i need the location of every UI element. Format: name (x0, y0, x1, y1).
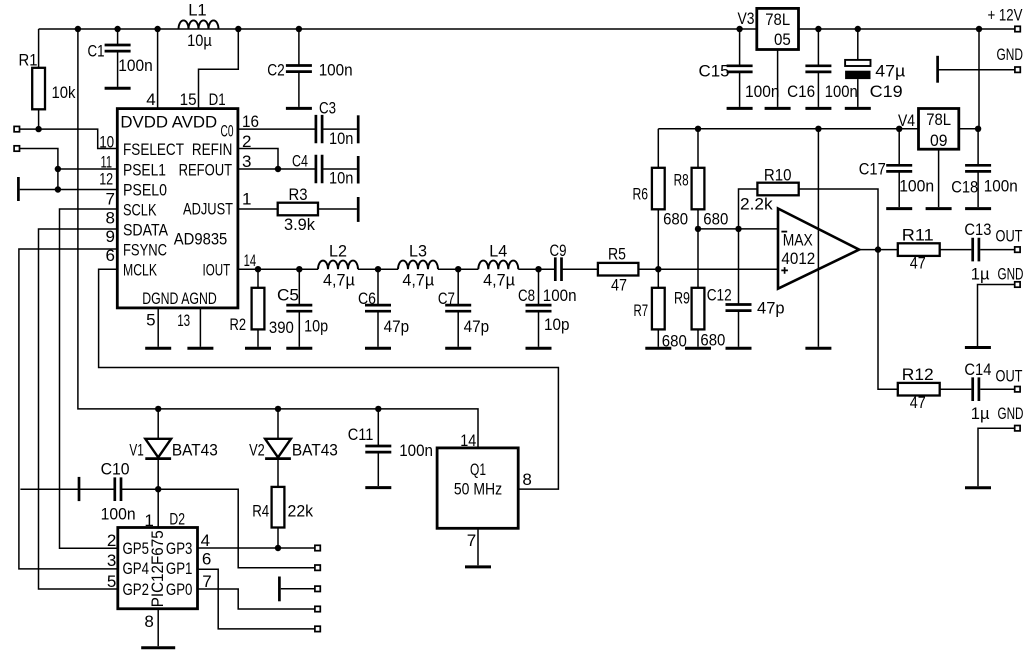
svg-text:10: 10 (99, 133, 114, 152)
wire C15 to rail (739, 29, 741, 66)
wire C18 to ground (977, 171, 979, 207)
op-amp inverting input marker (781, 231, 787, 233)
wire AD9835 pin 4 DVDD to rail (157, 29, 159, 109)
svg-text:L3: L3 (409, 242, 427, 261)
svg-text:C15: C15 (699, 62, 730, 81)
wire V1 cathode to C10 node (157, 460, 159, 489)
svg-text:GP3: GP3 (166, 539, 193, 558)
ground C12 (726, 347, 752, 350)
junction V1 / diode rail (155, 406, 161, 412)
svg-text:78L: 78L (926, 110, 951, 129)
IC D2 PIC12F675 body (118, 528, 198, 609)
svg-text:100n: 100n (319, 60, 353, 79)
wire V2 anode (277, 409, 279, 439)
capacitor C9 (555, 257, 561, 281)
capacitor C2 (286, 66, 312, 72)
junction PSEL0 tie (55, 186, 61, 192)
junction +5V rail / left branch (75, 26, 81, 32)
svg-text:1: 1 (144, 511, 153, 530)
junction C16 / rail (815, 26, 821, 32)
wire C2 to ground (298, 72, 300, 107)
resistor R2 (252, 288, 265, 330)
junction R4 / GP3 (275, 545, 281, 551)
svg-text:R8: R8 (674, 170, 689, 189)
diode V1 (145, 439, 171, 458)
terminal GP0 output (315, 606, 320, 611)
inductor L3 (398, 261, 438, 270)
svg-text:47p: 47p (384, 317, 410, 336)
ground V4 (926, 207, 952, 210)
svg-text:C8: C8 (518, 286, 535, 305)
resistor R7 (652, 288, 665, 330)
ground lower output (965, 486, 991, 489)
wire C2 to rail (298, 29, 300, 66)
svg-text:SCLK: SCLK (123, 200, 157, 219)
svg-text:3: 3 (242, 152, 251, 171)
terminal GND lower (1015, 426, 1020, 431)
junction R5 / R6 / R7 + input node (655, 266, 661, 272)
junction R1 / FSELECT wire (35, 126, 41, 132)
svg-text:C13: C13 (964, 220, 991, 239)
ground C6 (365, 347, 391, 350)
wire 9V rail (658, 128, 918, 130)
svg-text:C12: C12 (707, 286, 732, 305)
wire FSYNC pin 9 to PIC GP4 (19, 249, 118, 569)
resistor R9 (692, 288, 705, 330)
svg-text:C4: C4 (292, 152, 308, 171)
wire R9 from - node to ground (697, 229, 699, 347)
wire V4 ground pin (938, 149, 940, 207)
ground C11 (365, 486, 391, 489)
ground C8 (526, 347, 552, 350)
bar termination C4 (357, 156, 360, 184)
wire MCLK pin 6 to oscillator output pin 8 (99, 269, 559, 489)
wire C12 to ground (738, 311, 740, 347)
terminal GND top (1015, 67, 1020, 72)
svg-text:V3: V3 (738, 9, 755, 28)
wire C17 to 9V rail (898, 129, 900, 166)
junction R8 / R9 - node (695, 226, 701, 232)
wire C5 to ground (298, 311, 300, 347)
junction +12V drop / rail (976, 26, 982, 32)
ground C2 (286, 107, 312, 110)
ground AGND pin 13 (187, 347, 213, 350)
oscillator Q1 50 MHz body (437, 448, 518, 528)
svg-text:R10: R10 (764, 166, 792, 185)
wire C11 to ground (377, 452, 379, 486)
capacitor C6 (365, 305, 391, 311)
svg-text:680: 680 (703, 209, 728, 228)
svg-text:100n: 100n (101, 505, 136, 524)
svg-text:3: 3 (107, 551, 116, 570)
svg-text:5: 5 (107, 572, 116, 591)
junction V1 cathode / C10 / PIC pin1 (155, 486, 161, 492)
wire C10 to node (122, 488, 159, 490)
svg-text:12: 12 (99, 170, 113, 189)
svg-text:OUT: OUT (996, 227, 1023, 246)
wire PIC GP3 pin 4 to terminal (198, 547, 315, 549)
svg-text:+ 12V: + 12V (988, 6, 1023, 25)
bar termination R3 (357, 197, 360, 222)
capacitor C19 electrolytic (845, 60, 870, 66)
terminal GND upper (1015, 282, 1020, 287)
svg-text:1µ: 1µ (971, 404, 990, 423)
ground C7 (445, 347, 471, 350)
ground C15 (727, 107, 753, 110)
capacitor C18 (965, 165, 991, 171)
terminal OUT lower (1015, 387, 1020, 392)
svg-text:C18: C18 (951, 178, 978, 197)
svg-text:V4: V4 (898, 111, 915, 130)
wire AGND pin 13 to ground (199, 308, 201, 347)
IC D1 AD9835 body (117, 109, 238, 308)
wire C3 to bar (323, 128, 357, 130)
wire C10 node to PIC pin 1 (157, 489, 159, 527)
wire PIC pin 8 to ground (157, 609, 159, 646)
svg-text:MCLK: MCLK (123, 260, 157, 279)
svg-text:R5: R5 (608, 245, 626, 264)
svg-text:4,7µ: 4,7µ (402, 271, 434, 290)
wire R4 bottom to GP3 net (277, 528, 279, 549)
capacitor C13 (973, 238, 979, 262)
junction C17 / 9V rail (896, 126, 902, 132)
bar termination PSEL0 (17, 177, 20, 201)
svg-text:10µ: 10µ (187, 31, 212, 50)
svg-text:GP2: GP2 (123, 580, 150, 599)
svg-text:C6: C6 (358, 289, 376, 308)
svg-text:100n: 100n (745, 82, 780, 101)
junction C15 / rail (736, 26, 742, 32)
wire GND terminal upper output (978, 285, 1015, 347)
svg-text:AD9835: AD9835 (174, 230, 228, 249)
svg-text:C9: C9 (550, 241, 567, 260)
junction R8 / 9V rail (695, 126, 701, 132)
wire C5 top (298, 269, 300, 305)
wire C6 to ground (377, 311, 379, 347)
svg-text:SDATA: SDATA (123, 220, 169, 239)
ground C19 (845, 107, 871, 110)
svg-text:13: 13 (177, 311, 190, 330)
capacitor C17 (886, 165, 912, 171)
svg-text:09: 09 (930, 131, 948, 150)
svg-text:GND: GND (998, 265, 1023, 284)
svg-text:1µ: 1µ (971, 265, 990, 284)
inductor L1 (179, 20, 219, 29)
svg-text:D1: D1 (209, 90, 226, 109)
svg-text:10k: 10k (52, 83, 76, 102)
svg-text:L1: L1 (188, 0, 207, 19)
wire L3 to L4 node (438, 268, 478, 270)
junction C19 / rail (855, 26, 861, 32)
bar termination C10 (78, 477, 81, 501)
wire V4 input from +12V (959, 128, 978, 130)
wire V3 ground pin (777, 50, 779, 107)
wire R12 to C14 (940, 388, 972, 390)
wire R10 left to - node (739, 189, 758, 229)
svg-text:C1: C1 (88, 42, 105, 61)
svg-text:78L: 78L (765, 10, 790, 29)
ground R2 (245, 347, 271, 350)
inductor L2 (318, 261, 358, 270)
wire C13 to OUT terminal (980, 249, 1014, 251)
ground C5 (286, 347, 312, 350)
junction C8 / C9 node (535, 266, 541, 272)
wire Q1 pin 7 to ground (477, 528, 479, 565)
svg-text:680: 680 (700, 331, 725, 350)
svg-text:22k: 22k (288, 502, 314, 521)
svg-text:Q1: Q1 (470, 460, 486, 479)
wire R7 to ground (657, 329, 659, 346)
wire C18 top (977, 129, 979, 166)
svg-text:10p: 10p (544, 315, 570, 334)
wire C16 to rail (817, 29, 819, 66)
svg-text:C14: C14 (964, 360, 991, 379)
svg-text:3.9k: 3.9k (284, 215, 315, 234)
svg-text:C11: C11 (348, 425, 374, 444)
capacitor C10 (115, 477, 121, 501)
regulator V4 78L09 body (919, 109, 959, 150)
svg-text:50 MHz: 50 MHz (454, 480, 502, 499)
svg-text:8: 8 (522, 470, 531, 489)
wire R1 bottom to FSELECT net (38, 109, 40, 129)
svg-text:C17: C17 (859, 160, 886, 179)
svg-text:4,7µ: 4,7µ (483, 271, 515, 290)
wire C8 top (538, 269, 540, 305)
svg-text:2.2k: 2.2k (740, 195, 773, 214)
svg-text:OUT: OUT (996, 366, 1023, 385)
wire SDATA pin 8 to PIC GP2 (39, 229, 118, 589)
svg-text:ADJUST: ADJUST (183, 200, 233, 219)
junction V2 / diode rail (275, 406, 281, 412)
svg-text:100n: 100n (399, 441, 433, 460)
svg-text:DGND AGND: DGND AGND (142, 289, 217, 308)
svg-text:L4: L4 (489, 242, 507, 261)
svg-text:4: 4 (146, 90, 155, 109)
wire R2 to ground (257, 329, 259, 346)
capacitor C15 (727, 66, 753, 72)
terminal OUT upper (1015, 247, 1020, 252)
svg-text:47µ: 47µ (875, 62, 905, 81)
svg-text:C2: C2 (267, 60, 285, 79)
svg-text:05: 05 (774, 30, 791, 49)
capacitor C8 (526, 305, 552, 311)
svg-text:R4: R4 (252, 502, 269, 521)
svg-text:7: 7 (106, 190, 115, 209)
wire PSEL0 pin 12 from bar (20, 189, 118, 191)
svg-text:2: 2 (107, 531, 116, 550)
op-amp non-inverting input marker (781, 267, 788, 274)
terminal GP1 output (315, 626, 320, 631)
junction L1 right / AVDD (235, 26, 241, 32)
wire output node down to R12 (878, 250, 898, 390)
svg-text:10n: 10n (329, 169, 353, 188)
capacitor C5 (286, 305, 312, 311)
wire V1 anode (157, 409, 159, 439)
wire pin 3 REFOUT to C4 (238, 168, 316, 170)
svg-text:MAX: MAX (783, 230, 813, 249)
wire C12 from - node (738, 229, 740, 305)
svg-text:14: 14 (244, 251, 257, 270)
wire PIC GP0 pin 7 to terminal (198, 589, 315, 609)
wire C1 to ground (117, 51, 119, 87)
wire pin 16 CO to C3 (238, 128, 316, 130)
resistor R6 (652, 168, 665, 210)
ground DGND pin 5 (145, 347, 171, 350)
svg-text:REFOUT: REFOUT (179, 160, 233, 179)
wire C6 top (377, 269, 379, 305)
ground C1 (105, 87, 131, 90)
svg-text:9: 9 (106, 227, 115, 246)
wire PIC GP1 pin 6 to terminal (198, 569, 315, 629)
wire +12V terminal drop to 78L09 input (978, 29, 980, 129)
svg-text:R12: R12 (902, 365, 934, 384)
svg-text:10p: 10p (304, 317, 328, 336)
svg-text:GND: GND (997, 45, 1023, 64)
svg-text:GP1: GP1 (166, 559, 193, 578)
svg-text:7: 7 (202, 572, 211, 591)
wire - node to op-amp - input (698, 228, 778, 230)
bar termination GND (936, 56, 939, 83)
svg-text:5: 5 (146, 311, 155, 330)
wire bar to C10 (20, 488, 113, 490)
svg-text:FSELECT: FSELECT (123, 140, 184, 159)
bar termination C3 (357, 115, 360, 143)
capacitor C16 (805, 66, 831, 72)
svg-text:DVDD AVDD: DVDD AVDD (120, 113, 217, 132)
wire C8 to ground (538, 311, 540, 347)
wire R6 bottom to + node (657, 209, 659, 269)
svg-text:D2: D2 (169, 509, 185, 528)
wire SCLK pin 7 to PIC GP5 (60, 209, 118, 548)
junction C1 / rail (114, 26, 120, 32)
terminal C10 node output (315, 565, 320, 570)
capacitor C12 (726, 305, 752, 311)
wire pin 1 ADJUST to R3 (238, 208, 278, 210)
op-amp U1 MAX4012 (778, 209, 859, 289)
ground C16 (805, 107, 831, 110)
svg-text:PSEL0: PSEL0 (123, 180, 167, 199)
junction C6 node (375, 266, 381, 272)
wire C7 top (457, 269, 459, 305)
svg-text:8: 8 (106, 208, 115, 227)
resistor R10 (757, 183, 798, 196)
ground V3 (765, 107, 791, 110)
wire R5 to op-amp + input (638, 268, 778, 270)
ground R9 (685, 347, 711, 350)
svg-text:R6: R6 (633, 185, 649, 204)
junction C11 / diode rail (375, 406, 381, 412)
wire R8 top (697, 129, 699, 168)
wire bar to middle terminal (281, 588, 315, 590)
resistor R4 (272, 487, 285, 528)
ground Q1 pin 7 (465, 565, 491, 568)
svg-text:10n: 10n (329, 129, 353, 148)
svg-text:C5: C5 (277, 285, 299, 304)
wire R11 to C13 (940, 249, 972, 251)
wire C10 node to terminal row (158, 489, 314, 568)
svg-text:GP5: GP5 (123, 539, 150, 558)
svg-text:R11: R11 (902, 225, 934, 244)
resistor R8 (692, 168, 705, 210)
svg-text:PSEL1: PSEL1 (123, 160, 166, 179)
svg-text:390: 390 (269, 318, 294, 337)
diode V2 (265, 439, 291, 458)
svg-text:R7: R7 (634, 301, 649, 320)
svg-text:100n: 100n (825, 82, 858, 101)
wire 9V rail to R6 (657, 129, 659, 168)
terminal GP3 output (315, 545, 320, 550)
svg-text:7: 7 (467, 531, 476, 550)
wire terminal to FSELECT pin 10 (20, 129, 117, 148)
svg-text:47: 47 (611, 276, 627, 295)
terminal +12V (1015, 26, 1020, 31)
svg-text:GP4: GP4 (123, 559, 150, 578)
junction V4 input / +12V drop (975, 126, 981, 132)
svg-text:100n: 100n (118, 56, 153, 75)
wire pin 2 REFIN jog to REFOUT net (238, 149, 278, 170)
svg-text:C19: C19 (870, 82, 903, 101)
svg-text:47: 47 (910, 393, 926, 412)
svg-text:C7: C7 (438, 289, 455, 308)
capacitor C11 (365, 446, 391, 452)
junction C2 / rail (296, 26, 302, 32)
wire R3 to bar (318, 208, 357, 210)
svg-text:V2: V2 (249, 441, 265, 460)
wire C16 to ground (817, 72, 819, 107)
capacitor C3 (316, 115, 322, 143)
svg-text:100n: 100n (543, 286, 577, 305)
svg-text:BAT43: BAT43 (292, 441, 338, 460)
resistor R5 (598, 263, 639, 276)
resistor R1 (32, 68, 45, 110)
wire PSEL1 pin 11 (58, 168, 117, 170)
capacitor C4 (316, 155, 322, 183)
svg-text:680: 680 (663, 209, 688, 228)
wire L2 to L3 node (358, 268, 398, 270)
svg-text:100n: 100n (984, 177, 1018, 196)
junction REFIN-REFOUT tie (275, 166, 281, 172)
svg-text:R3: R3 (289, 185, 308, 204)
resistor R12 (898, 383, 940, 396)
ground C17 (886, 207, 912, 210)
terminal middle bar (315, 586, 320, 591)
wire R2 top (257, 269, 259, 288)
svg-text:FSYNC: FSYNC (123, 240, 167, 259)
wire C14 to OUT terminal (980, 388, 1014, 390)
svg-text:8: 8 (144, 612, 153, 631)
wire R8 bottom to - node (697, 209, 699, 229)
svg-text:4,7µ: 4,7µ (323, 271, 355, 290)
wire C19 to ground (857, 79, 859, 107)
wire AD9835 pin 15 AVDD to rail (199, 29, 239, 109)
wire C9 to R5 (562, 268, 598, 270)
wire IOUT pin 14 to L2 (238, 268, 318, 270)
capacitor C7 (445, 305, 471, 311)
terminal FSELECT input (14, 126, 19, 131)
wire op-amp output to R11 (859, 249, 898, 251)
bar termination middle terminal (278, 577, 281, 602)
ground op-amp power (805, 347, 831, 350)
junction PSEL1 tie (55, 166, 61, 172)
svg-text:4012: 4012 (781, 249, 815, 268)
wire +5V top rail (78L05 output to AD9835 supply) (39, 28, 757, 30)
ground C18 (965, 207, 991, 210)
wire C7 to ground (457, 311, 459, 347)
regulator V3 78L05 body (757, 8, 799, 49)
wire R10 right to output node (799, 189, 878, 250)
junction C7 node (455, 266, 461, 272)
junction op-amp power / 9V rail (815, 126, 821, 132)
